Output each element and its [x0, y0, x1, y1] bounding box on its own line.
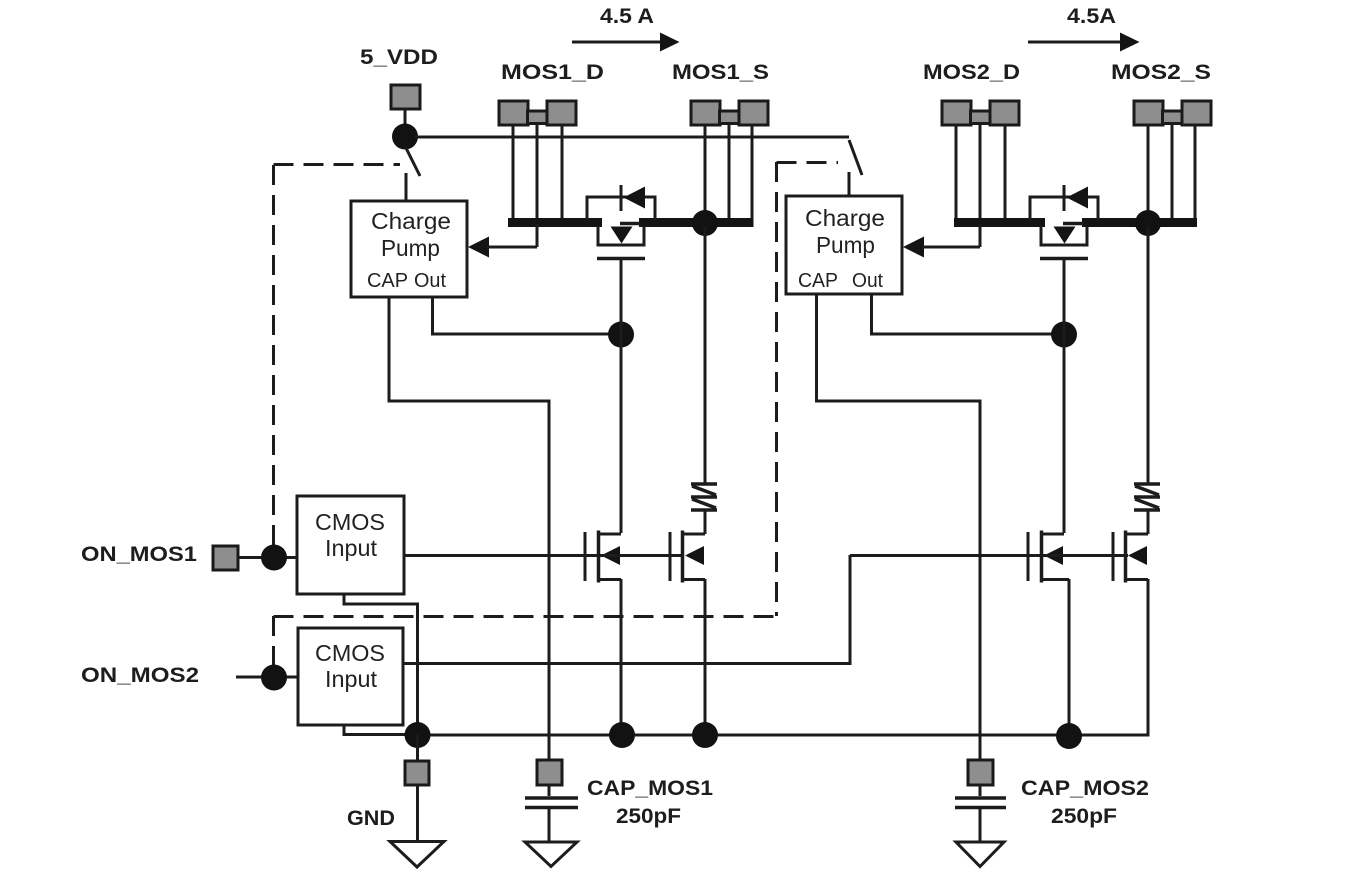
label MOS2_D [923, 61, 1020, 84]
label 4.5A (right current) [1067, 5, 1116, 28]
switch S1 blade [406, 148, 420, 176]
node dot bus2 / MOS2_S [1135, 210, 1161, 236]
op block CMOS input 2 [298, 628, 403, 725]
wire gate of M1 down to Q1a drain [620, 258, 623, 533]
label charge pump U1 text [367, 208, 451, 292]
capacitor C1 [525, 785, 578, 842]
wire thick source bus 1 [639, 218, 754, 227]
label CAP_MOS2 [1021, 777, 1149, 800]
wire MOS1_D pin 3 [561, 125, 564, 218]
wire resistor R1 to Q1b drain [704, 511, 707, 534]
wire ON_MOS2 stub to CMOS input 2 [236, 676, 298, 679]
wire thick source bus 2 [1082, 218, 1197, 227]
wire MOS1_D pin 1 [512, 125, 515, 218]
svg-text:Input: Input [325, 666, 378, 692]
wire dashed ON_MOS1 to switch S1 vertical [272, 165, 275, 548]
pad capacitor C1 [537, 760, 562, 785]
wire charge pump 2 Out pin routing [872, 294, 1065, 334]
power MOSFET M2 with body diode [1030, 185, 1098, 259]
pad ON_MOS1 [213, 546, 238, 570]
wire Q2a source down [1068, 579, 1071, 735]
wire CMOS input 2 ground pin [344, 725, 417, 735]
label MOS1_S [672, 61, 769, 84]
capacitor C2 [955, 785, 1006, 842]
svg-text:250pF: 250pF [616, 805, 681, 828]
node 5_VDD junction dot [392, 124, 418, 150]
wire gate of M2 down to Q2a drain [1063, 258, 1066, 533]
wire dashed ON_MOS2 horizontal run [274, 615, 777, 618]
wire GND pad to ground symbol [416, 785, 419, 841]
wire MOS2_S pin 3 [1194, 125, 1197, 218]
wire dashed ON_MOS1 to switch S1 horizontal [274, 163, 401, 166]
wire charge pump 1 CAP pin routing [389, 297, 549, 760]
svg-text:MOS2_D: MOS2_D [923, 61, 1020, 84]
label CMOS input 1 text [315, 509, 385, 561]
wire MOS2_S pin 1 [1147, 125, 1150, 218]
pad group MOS1_S [691, 101, 768, 125]
wire dashed horizontal to switch S2 [777, 161, 839, 164]
wire charge pump 1 sense input with arrow [468, 224, 537, 258]
power MOSFET M1 with body diode [587, 185, 655, 259]
wire charge pump 2 sense input with arrow [903, 224, 980, 258]
op block CMOS input 1 [297, 496, 404, 594]
wire thick drain bus 2 [954, 218, 1045, 227]
svg-text:Charge: Charge [805, 205, 885, 231]
svg-text:MOS2_S: MOS2_S [1111, 61, 1211, 84]
svg-text:Input: Input [325, 535, 378, 561]
node dot gate1 / Out1 [608, 322, 634, 348]
wire Q1a source down [620, 579, 623, 735]
op block charge pump U2 [786, 196, 902, 294]
label 250pF C1 [616, 805, 681, 828]
wire GND junction to pad [416, 735, 419, 761]
wire Q1b source down [704, 579, 707, 735]
transistor Q2a [1028, 531, 1069, 583]
svg-text:CAP: CAP [367, 270, 408, 292]
label MOS2_S [1111, 61, 1211, 84]
wire thick drain bus 1 [508, 218, 602, 227]
node dot ground junction GND [405, 722, 431, 748]
svg-text:ON_MOS1: ON_MOS1 [81, 543, 197, 566]
node dot Q2a source on rail [1056, 723, 1082, 749]
pad group MOS2_S [1134, 101, 1211, 125]
wire switch S2 contact to charge pump 2 [848, 172, 851, 196]
wire MOS2_D pin 2 [979, 125, 982, 218]
svg-text:Out: Out [414, 270, 446, 292]
svg-text:Out: Out [852, 270, 883, 292]
svg-text:CMOS: CMOS [315, 640, 385, 666]
svg-text:ON_MOS2: ON_MOS2 [81, 664, 199, 687]
switch S2 blade [849, 140, 862, 175]
svg-text:Pump: Pump [816, 232, 875, 258]
wire ON_MOS1 pad to CMOS input 1 [238, 556, 297, 559]
pad group MOS2_D [942, 101, 1019, 125]
node dot Q1b source on rail [692, 722, 718, 748]
node dot Q1a source on rail [609, 722, 635, 748]
op block charge pump U1 [351, 201, 467, 297]
transistor Q1a [585, 531, 621, 583]
label ON_MOS2 [81, 664, 199, 687]
wire MOS2_D pin 3 [1004, 125, 1007, 218]
wire bus2 to resistor R2 [1147, 227, 1150, 483]
pad group MOS1_D [499, 101, 576, 125]
node dot ON_MOS2 [261, 665, 287, 691]
svg-text:MOS1_D: MOS1_D [501, 61, 604, 84]
svg-text:5_VDD: 5_VDD [360, 46, 438, 69]
current arrow 1 [572, 33, 680, 52]
wire dashed ON_MOS2 riser [272, 616, 275, 667]
label GND [347, 807, 395, 830]
node dot bus1 / MOS1_S [692, 210, 718, 236]
wire Q2b source down [1147, 579, 1150, 737]
label 250pF C2 [1051, 805, 1117, 828]
ground symbol GND [390, 842, 444, 868]
svg-text:250pF: 250pF [1051, 805, 1117, 828]
label CAP_MOS1 [587, 777, 713, 800]
svg-text:Pump: Pump [381, 235, 440, 261]
ground symbol C1 [525, 842, 577, 867]
resistor R1 [691, 484, 717, 510]
svg-text:MOS1_S: MOS1_S [672, 61, 769, 84]
resistor R2 [1134, 484, 1160, 510]
wire gate line CMOS input 1 [404, 554, 684, 557]
label 5_VDD [360, 46, 438, 69]
svg-text:CAP_MOS1: CAP_MOS1 [587, 777, 713, 800]
node dot gate2 / Out2 [1051, 322, 1077, 348]
wire CMOS input 2 output routing [403, 555, 850, 664]
wire CMOS input 1 ground pin [344, 594, 418, 735]
pad GND [405, 761, 429, 785]
svg-text:CMOS: CMOS [315, 509, 385, 535]
wire 5_VDD rail [415, 136, 849, 139]
wire resistor R2 to Q2b drain [1147, 511, 1150, 534]
wire gate line CMOS input 2 [850, 554, 1128, 557]
svg-text:4.5A: 4.5A [1067, 5, 1116, 28]
label charge pump U2 text [798, 205, 885, 292]
svg-text:GND: GND [347, 807, 395, 830]
label CMOS input 2 text [315, 640, 385, 692]
ground symbol C2 [956, 842, 1004, 867]
wire 5_VDD pad to node [404, 109, 407, 136]
wire dashed vertical to switch S2 [775, 162, 778, 616]
label 4.5 A (left current) [600, 5, 654, 28]
svg-text:4.5 A: 4.5 A [600, 5, 654, 28]
wire MOS2_D pin 1 [955, 125, 958, 218]
pad capacitor C2 [968, 760, 993, 785]
transistor Q2b [1113, 531, 1148, 583]
node dot ON_MOS1 [261, 545, 287, 571]
wire MOS1_D pin 2 [536, 125, 539, 218]
svg-text:Charge: Charge [371, 208, 451, 234]
wire ground rail [417, 734, 1150, 737]
wire charge pump 1 Out pin routing [433, 297, 622, 334]
wire MOS1_S pin 2 [728, 125, 731, 218]
label MOS1_D [501, 61, 604, 84]
svg-text:CAP: CAP [798, 270, 838, 292]
wire switch S1 contact to charge pump 1 [405, 173, 408, 201]
label ON_MOS1 [81, 543, 197, 566]
wire MOS1_S pin 3 [751, 125, 754, 218]
wire bus1 to resistor R1 [704, 227, 707, 483]
wire MOS1_S pin 1 [704, 125, 707, 218]
wire charge pump 2 CAP pin routing [817, 294, 981, 760]
svg-text:CAP_MOS2: CAP_MOS2 [1021, 777, 1149, 800]
wire MOS2_S pin 2 [1171, 125, 1174, 218]
pad 5_VDD [391, 85, 420, 109]
transistor Q1b [670, 531, 705, 583]
current arrow 2 [1028, 33, 1140, 52]
